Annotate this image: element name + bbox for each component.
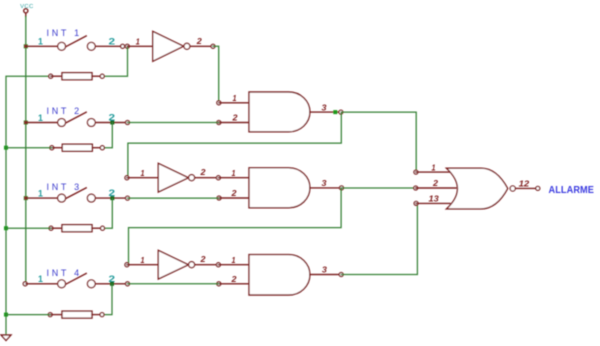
svg-text:2: 2 [231,114,238,123]
wire R3 left [6,227,51,229]
junction AND1 out [333,110,337,114]
svg-text:1: 1 [232,169,236,178]
wire AND1 out feedback to U3 in [128,112,341,178]
inverter U3 pin1 [125,169,158,180]
svg-text:12: 12 [519,180,530,189]
AND gate U6 pin3 out [310,266,343,277]
svg-text:2: 2 [199,168,206,177]
inverter U3 [158,163,220,192]
resistor R3 [49,225,105,232]
wire AND1 out to NOR pin1 [342,112,417,172]
ground symbol GND [1,335,11,341]
wire AND3 out to NOR pin13 [341,204,417,275]
NOR gate U7 pin1 [414,163,450,174]
AND gate U4 pin3 out [310,179,344,190]
switch S4 INT 4 [23,268,129,288]
junction left bus / R2 [4,146,8,150]
NOR gate U7 pin12 out [516,180,540,191]
junction S4 / R4 drop [110,282,114,286]
svg-text:3: 3 [322,266,328,275]
svg-text:1: 1 [38,274,43,284]
svg-text:INT 3: INT 3 [47,182,82,192]
svg-text:1: 1 [232,256,236,265]
junction S3 / R3 drop [110,196,114,200]
svg-text:VCC: VCC [20,4,33,10]
resistor R1 [49,73,104,80]
junction VCC / INT3 [24,196,28,200]
AND gate U2 pin1 [217,94,249,105]
svg-text:2: 2 [196,37,203,46]
wire S4 to R4 [102,284,112,315]
svg-text:2: 2 [230,275,237,284]
svg-text:2: 2 [109,36,116,46]
junction VCC / INT2 [24,121,28,125]
AND gate U2 pin3 out [310,103,343,114]
AND gate U2 pin2 [217,114,249,125]
switch S3 INT 3 [26,182,130,202]
resistor R2 [50,144,105,151]
inverter U5 [158,250,220,279]
NOR gate U7 pin2 [414,179,456,190]
wire left ground bus [6,76,51,334]
svg-text:1: 1 [38,188,43,198]
wire U1 out to AND1 pin1 [213,46,219,103]
wire R4 left [6,314,50,316]
svg-text:1: 1 [38,37,43,47]
svg-text:3: 3 [322,103,328,112]
wire AND2 out to NOR pin2 [342,187,416,189]
inverter U1 pin1 wire [128,45,153,47]
AND gate U6 pin2 [217,275,249,286]
AND gate U6 pin1 [218,256,249,265]
inverter U1 [153,31,215,61]
wire VCC vertical bus [25,17,27,284]
svg-text:INT 2: INT 2 [47,106,82,116]
AND gate U4 pin1 [218,169,249,178]
svg-text:ALLARME: ALLARME [549,185,595,196]
svg-text:1: 1 [233,94,237,103]
svg-text:13: 13 [429,195,440,204]
svg-text:1: 1 [432,163,436,172]
svg-text:1: 1 [38,113,43,123]
NOR gate U7 output bubble [510,186,515,191]
NOR gate U7 pin13 [414,195,450,206]
svg-text:2: 2 [432,179,439,188]
wire S4 to AND3 pin2 [128,283,219,285]
svg-text:3: 3 [322,179,328,188]
svg-text:INT 1: INT 1 [47,28,82,38]
AND gate U2 [249,92,310,132]
switch S2 INT 2 [26,106,130,127]
AND gate U4 pin2 [217,189,249,200]
wire S3 to R3 [103,198,113,228]
wire S3 to AND2 pin2 [128,197,220,199]
svg-text:1: 1 [141,256,145,265]
svg-text:2: 2 [230,189,237,198]
AND gate U4 [249,168,310,208]
wire S2 to AND1 pin2 [128,122,219,124]
junction VCC / INT1 [24,44,28,48]
svg-text:2: 2 [199,255,206,264]
switch S1 INT 1 [26,28,129,50]
junction left bus / R4 [4,313,8,317]
wire S1 to R1 [102,46,127,76]
resistor R4 [48,311,104,318]
svg-text:INT 4: INT 4 [47,268,82,278]
svg-text:1: 1 [136,38,140,47]
NOR gate U7 [447,168,508,209]
inverter U5 pin1 [125,256,158,267]
svg-text:1: 1 [141,169,145,178]
junction left bus / R3 [4,226,8,230]
wire S2 to R2 [102,123,112,148]
wire AND2 out feedback to U5 in [129,188,342,265]
AND gate U6 [249,255,310,295]
power VCC symbol P1 [20,4,33,16]
wire R2 left [6,147,52,149]
junction S2 / R2 drop [110,121,114,125]
